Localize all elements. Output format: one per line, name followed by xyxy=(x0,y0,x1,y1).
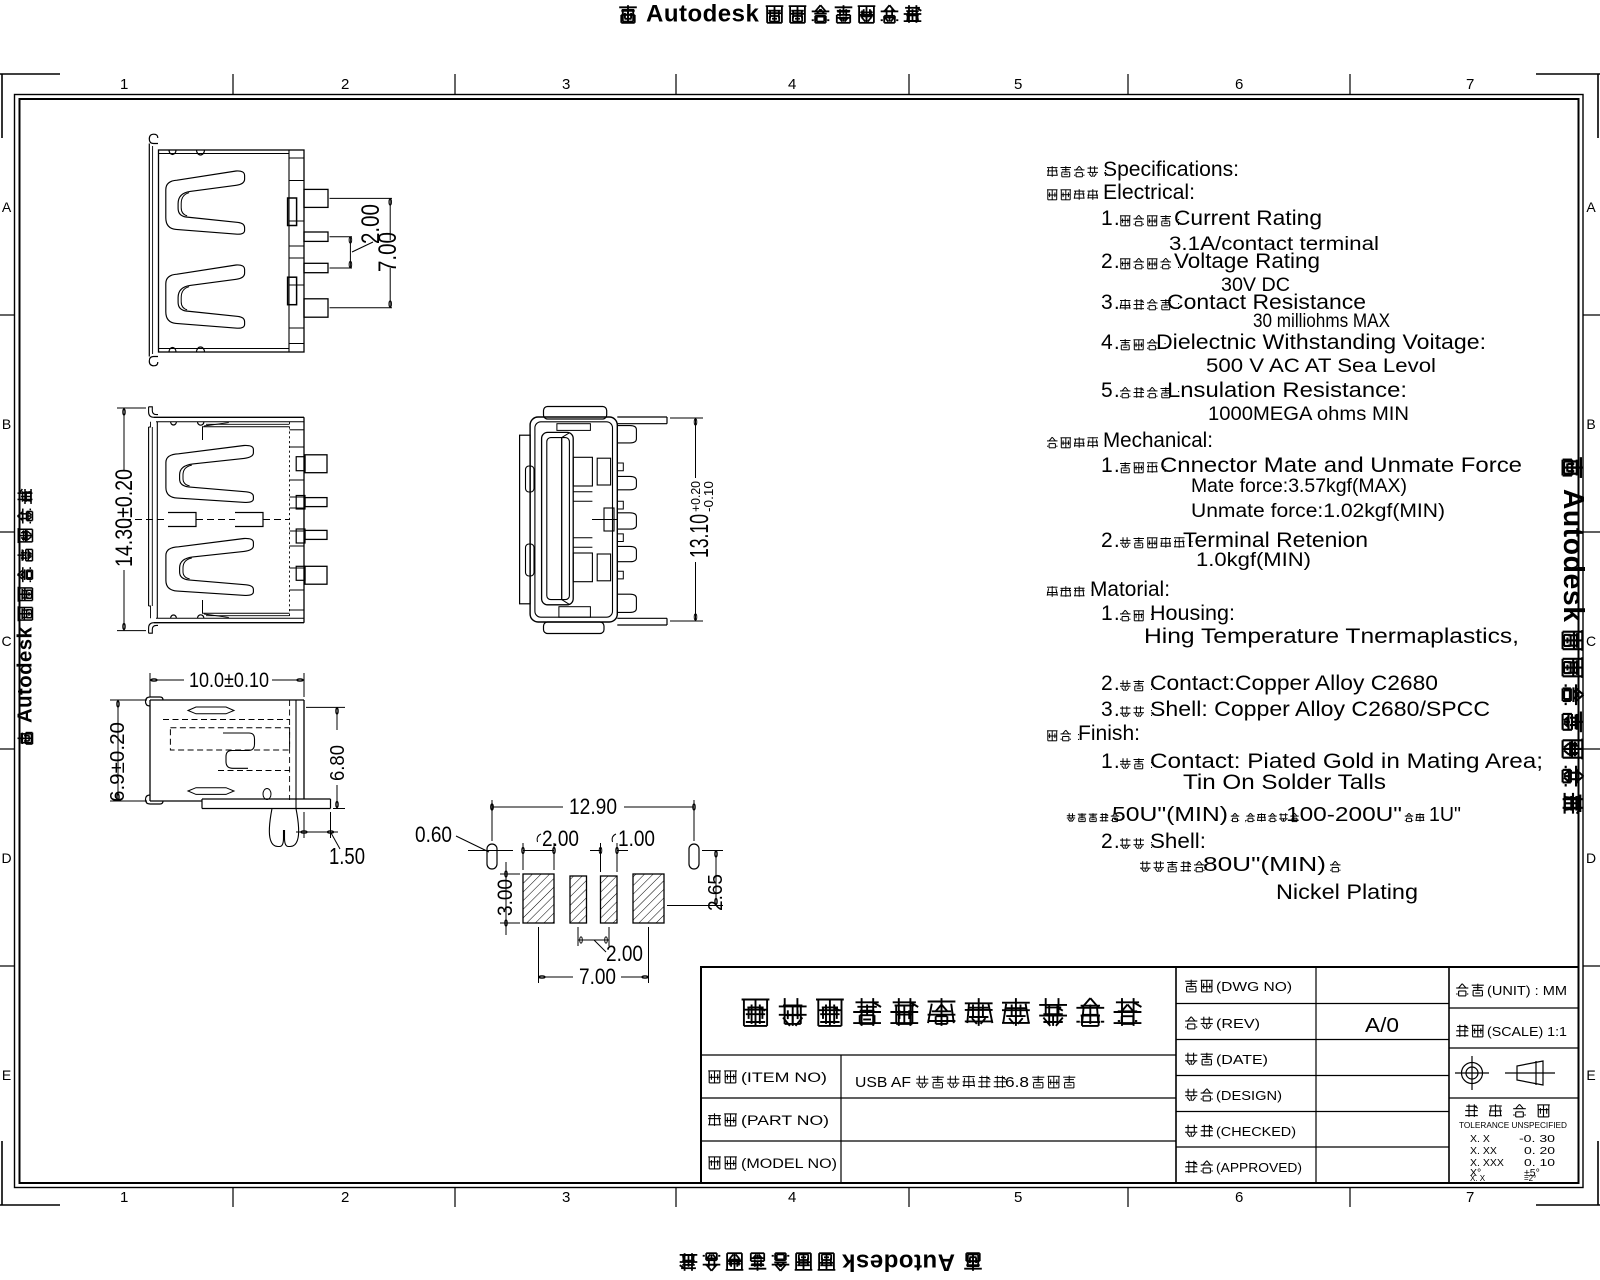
title block item label divider xyxy=(840,1055,842,1183)
v2 center line dashed xyxy=(124,519,168,521)
svg-text:7.00: 7.00 xyxy=(374,232,402,272)
v4 shell seam top xyxy=(188,707,234,714)
svg-text:10.0±0.10: 10.0±0.10 xyxy=(189,669,269,692)
svg-text:2.00: 2.00 xyxy=(606,941,643,966)
column tick marks top xyxy=(232,74,234,95)
svg-text:(CHECKED): (CHECKED) xyxy=(1216,1124,1296,1139)
v2 top dimple bumps xyxy=(171,422,177,425)
v4 shell seam bottom xyxy=(188,788,234,795)
svg-text:-0. 30: -0. 30 xyxy=(1519,1133,1555,1145)
v5 extension lines 2.00 pitch xyxy=(577,927,579,946)
svg-text:E: E xyxy=(1586,1067,1595,1083)
v2 hidden wall dashed line xyxy=(289,422,291,618)
v4 dimension 10.0+-0.10 xyxy=(150,679,184,681)
scale label xyxy=(1456,1025,1468,1037)
svg-text:Finish:: Finish: xyxy=(1078,722,1140,745)
v2 bottom dimple bumps xyxy=(171,615,177,618)
v3 dimension 13.10 +0.20 -0.10 xyxy=(695,418,697,478)
corner centering mark top-right xyxy=(1536,73,1600,75)
svg-text:Matorial:: Matorial: xyxy=(1090,578,1170,601)
svg-text:(DESIGN): (DESIGN) xyxy=(1216,1088,1282,1103)
v1 bottom inner edge line xyxy=(159,348,290,350)
svg-text:A: A xyxy=(1586,199,1596,215)
v1 extension line pin4 xyxy=(330,307,393,309)
v3 top right flange xyxy=(617,416,667,418)
corner centering mark top-left xyxy=(0,73,60,75)
svg-text:D: D xyxy=(1586,850,1596,866)
svg-text:USB AF: USB AF xyxy=(855,1074,911,1091)
v3 shell outer outline xyxy=(530,417,617,622)
v5 extension lines 12.90 xyxy=(491,800,493,841)
title block right section row lines xyxy=(1176,1003,1449,1005)
design label xyxy=(1185,1089,1197,1101)
svg-text:4.: 4. xyxy=(1101,331,1121,354)
v2 pin 1 xyxy=(305,455,327,473)
svg-text:4: 4 xyxy=(788,76,796,93)
svg-text:3: 3 xyxy=(562,76,570,93)
v2 dimension 14.30+-0.20 xyxy=(123,408,125,471)
svg-text:=2°: =2° xyxy=(1524,1174,1536,1183)
v5 dimension 1.00 pad width xyxy=(600,843,602,872)
svg-text:1: 1 xyxy=(120,1189,128,1206)
v2 center housing step xyxy=(168,513,196,527)
svg-text:C: C xyxy=(1,633,11,649)
corner centering mark bottom-left xyxy=(0,1204,60,1206)
Autodesk educational watermark bottom (rotated 180) xyxy=(680,1249,982,1276)
svg-text:1.00: 1.00 xyxy=(618,826,655,851)
column tick marks bottom xyxy=(232,1188,234,1208)
v5 reference lines 2.65 xyxy=(702,850,723,852)
svg-text:100-200U": 100-200U" xyxy=(1286,804,1402,826)
tolerance table xyxy=(1465,1104,1478,1117)
svg-text:X. X: X. X xyxy=(1470,1133,1490,1145)
svg-text:1: 1 xyxy=(120,76,128,93)
svg-text:Hing Temperature Tnermapla: Hing Temperature Tnermaplastics, xyxy=(1144,625,1519,648)
v4 rear wall line xyxy=(295,700,297,809)
v2 rolled edge bottom xyxy=(203,600,290,613)
svg-text:(MODEL NO): (MODEL NO) xyxy=(741,1156,837,1171)
v1 pin 3 xyxy=(304,263,328,272)
svg-text:A: A xyxy=(2,199,12,215)
svg-text:Housing:: Housing: xyxy=(1150,602,1235,625)
svg-text:1.: 1. xyxy=(1101,750,1121,773)
v1 top dimple bumps xyxy=(169,150,176,155)
row tick marks right xyxy=(1583,314,1600,316)
svg-text:2: 2 xyxy=(341,1189,349,1206)
v4 flange hooks xyxy=(146,697,164,706)
svg-text:6.80: 6.80 xyxy=(327,745,349,781)
v2 rolled edge top xyxy=(203,427,290,440)
third angle projection symbol cone xyxy=(1517,1061,1543,1085)
v1 extension line pin2 xyxy=(330,236,353,238)
v2 pin 3 xyxy=(305,530,327,539)
v4 contact S-curve xyxy=(223,733,255,768)
svg-text:(REV): (REV) xyxy=(1216,1016,1260,1031)
v2 shell bottom edge xyxy=(154,622,304,624)
v5 dimension 2.00 pitch xyxy=(578,939,609,941)
svg-text:(APPROVED): (APPROVED) xyxy=(1216,1160,1302,1175)
spec heading Mechanical xyxy=(1047,437,1058,448)
svg-text:B: B xyxy=(1586,416,1595,432)
v5 slot left xyxy=(487,844,497,869)
v3 right edge spring bumps xyxy=(617,426,636,443)
svg-text:E: E xyxy=(2,1067,11,1083)
v1 dimension 7.00 span xyxy=(389,198,391,240)
v3 upper contact stack xyxy=(573,457,592,486)
svg-text:50U"(MIN): 50U"(MIN) xyxy=(1112,804,1228,826)
svg-text:6: 6 xyxy=(1235,76,1243,93)
v1 contact clamp lower xyxy=(166,265,245,328)
svg-text:Autodesk: Autodesk xyxy=(842,1249,956,1276)
v4 dimension 1.50 xyxy=(296,831,338,833)
svg-text:Autodesk: Autodesk xyxy=(646,1,760,28)
svg-text:C: C xyxy=(1586,633,1596,649)
svg-text:1000MEGA ohms MIN: 1000MEGA ohms MIN xyxy=(1208,404,1409,425)
svg-text:Autodesk: Autodesk xyxy=(1557,489,1589,623)
v5 extension lines 3.00 xyxy=(500,873,520,875)
v5 dimension 2.65 xyxy=(715,851,717,906)
v4 extension lines 6.80 xyxy=(306,706,345,708)
svg-text:X. XX: X. XX xyxy=(1470,1145,1497,1157)
v2 pin 2 xyxy=(305,498,327,507)
svg-text:TOLERANCE UNSPECIFIED: TOLERANCE UNSPECIFIED xyxy=(1459,1120,1567,1130)
v1 shell inner wall line xyxy=(288,150,290,352)
svg-text:Mate force:3.57kgf(MAX): Mate force:3.57kgf(MAX) xyxy=(1191,476,1407,497)
corner centering mark bottom-right xyxy=(1536,1204,1600,1206)
svg-text:7: 7 xyxy=(1466,76,1474,93)
company name 东莞泰科连接器有限公司 xyxy=(742,1000,770,1026)
svg-text:1U": 1U" xyxy=(1429,804,1461,826)
svg-text:5: 5 xyxy=(1014,1189,1022,1206)
v2 terminal slot lines xyxy=(290,429,305,431)
svg-text:12.90: 12.90 xyxy=(569,794,617,819)
svg-text:Contact: Piated Gold in Ma: Contact: Piated Gold in Mating Area; xyxy=(1150,750,1543,773)
svg-text:6: 6 xyxy=(1235,1189,1243,1206)
v5 pad 1 hatched xyxy=(523,874,554,923)
approved label xyxy=(1185,1161,1197,1173)
v1 shell body outline xyxy=(159,150,305,352)
v1 contact clamp upper xyxy=(166,171,245,234)
v3 right edge notches xyxy=(617,463,623,471)
svg-text:6.8: 6.8 xyxy=(1005,1074,1029,1091)
svg-text:(DWG NO): (DWG NO) xyxy=(1216,979,1292,994)
v2 contact clamp lower xyxy=(166,538,254,595)
svg-text:Dielectnic Withstanding Voit: Dielectnic Withstanding Voitage: xyxy=(1156,331,1486,354)
title block far right row lines xyxy=(1449,1007,1579,1009)
svg-text:3.: 3. xyxy=(1101,698,1121,721)
svg-text:Cnnector Mate and Unmate F: Cnnector Mate and Unmate Force xyxy=(1160,454,1522,477)
v1 contact window lower xyxy=(288,277,297,305)
svg-text:2.: 2. xyxy=(1101,672,1121,695)
v3 bottom locating tab xyxy=(544,622,605,634)
v3 flange tabs xyxy=(526,466,535,492)
svg-text:1.: 1. xyxy=(1101,207,1121,230)
spec heading Specifications xyxy=(1047,166,1058,177)
checked label xyxy=(1185,1125,1197,1137)
svg-text:,: , xyxy=(1244,813,1247,823)
row tick marks left xyxy=(0,314,15,316)
v5 extension lines 7.00 pitch xyxy=(538,927,540,983)
v1 extension line pin3 xyxy=(330,267,353,269)
spec plating detail line xyxy=(1067,813,1075,821)
v3 tongue face line xyxy=(561,438,563,600)
v2 pin collars xyxy=(296,457,305,471)
v3 bottom inner step xyxy=(559,607,591,618)
svg-text:1.50: 1.50 xyxy=(329,843,365,869)
v3 shell inner line xyxy=(535,422,613,617)
title block left section row lines xyxy=(701,1054,1176,1056)
spec heading Electrical xyxy=(1047,190,1058,200)
svg-text:-0.10: -0.10 xyxy=(701,481,716,512)
svg-text:2.65: 2.65 xyxy=(705,874,727,911)
svg-text:Autodesk: Autodesk xyxy=(14,626,36,723)
v1 extension line pin1 xyxy=(330,197,393,199)
v1 terminal slot lines xyxy=(289,157,304,159)
svg-text:7.00: 7.00 xyxy=(579,964,616,989)
v2 shell left edge xyxy=(156,422,158,618)
v5 pad 2 hatched xyxy=(570,876,587,923)
svg-text:(PART NO): (PART NO) xyxy=(741,1113,829,1128)
unit label xyxy=(1456,984,1468,996)
svg-text:3.: 3. xyxy=(1101,291,1121,314)
Autodesk educational watermark left (rotated) xyxy=(14,489,36,746)
model-no label xyxy=(708,1157,721,1169)
svg-text:A/0: A/0 xyxy=(1365,1015,1399,1037)
svg-text:80U"(MIN): 80U"(MIN) xyxy=(1203,854,1326,876)
title block vertical dividers xyxy=(1175,967,1177,1183)
v3 top locating tab xyxy=(544,407,607,420)
date label xyxy=(1185,1053,1197,1065)
v1 contact window upper xyxy=(288,198,297,226)
v3 extension lines 13.10 xyxy=(670,417,703,419)
svg-text:(DATE): (DATE) xyxy=(1216,1052,1268,1067)
v2 flange hook top-left xyxy=(149,407,158,415)
svg-text:X. X: X. X xyxy=(1470,1174,1486,1183)
v5 dimension 3.00 pad height xyxy=(505,862,507,935)
v3 lower contact stack xyxy=(573,553,592,582)
v2 pin 4 xyxy=(305,566,327,584)
svg-text:B: B xyxy=(2,416,11,432)
svg-text:Contact:Copper Alloy C2680: Contact:Copper Alloy C2680 xyxy=(1150,672,1438,695)
v5 pad 4 hatched xyxy=(633,874,664,923)
v3 top inner step xyxy=(557,424,591,431)
svg-text:0. 20: 0. 20 xyxy=(1524,1145,1555,1157)
v5 dimension 7.00 pitch xyxy=(539,976,574,978)
svg-text:14.30±0.20: 14.30±0.20 xyxy=(111,469,138,567)
v5 dimension 12.90 xyxy=(492,806,563,808)
svg-text:30 milliohms MAX: 30 milliohms MAX xyxy=(1253,311,1390,332)
v2 shell top edge xyxy=(154,416,304,418)
v2 flange hook bottom-left xyxy=(149,625,158,633)
svg-text:Terminal Retenion: Terminal Retenion xyxy=(1183,529,1368,552)
item-no label xyxy=(708,1071,721,1083)
svg-text:Shell:: Shell: xyxy=(1150,830,1206,853)
v4 dimension 6.80 xyxy=(336,707,338,730)
svg-text:(SCALE) 1:1: (SCALE) 1:1 xyxy=(1487,1024,1567,1039)
svg-text:5.: 5. xyxy=(1101,379,1121,402)
svg-text:Tin On Solder Talls: Tin On Solder Talls xyxy=(1183,771,1386,794)
svg-text:D: D xyxy=(1,850,11,866)
svg-text:Unmate force:1.02kgf(MIN): Unmate force:1.02kgf(MIN) xyxy=(1191,501,1445,522)
v1 top inner edge line xyxy=(159,153,290,155)
svg-text:(UNIT) : MM: (UNIT) : MM xyxy=(1487,983,1567,998)
svg-text:1.: 1. xyxy=(1101,454,1121,477)
svg-text:13.10: 13.10 xyxy=(684,514,714,558)
svg-text:Specifications:: Specifications: xyxy=(1103,158,1239,181)
v3 left flange strip xyxy=(520,435,531,604)
svg-text:7: 7 xyxy=(1466,1189,1474,1206)
v1 pin 1 xyxy=(304,189,328,207)
part-no label xyxy=(708,1113,721,1126)
v5 slot right xyxy=(689,844,699,869)
v4 extension lines 10.0 xyxy=(149,673,151,697)
v1 dimension 2.00 pitch xyxy=(349,237,351,268)
v3 tongue ring inner xyxy=(547,438,570,600)
svg-text:2: 2 xyxy=(341,76,349,93)
svg-text:4: 4 xyxy=(788,1189,796,1206)
svg-text:1.0kgf(MIN): 1.0kgf(MIN) xyxy=(1196,550,1311,571)
third angle projection symbol circle xyxy=(1455,1056,1489,1090)
v4 hidden lines dashed xyxy=(163,719,290,721)
v2 extension lines for 14.30 xyxy=(117,407,146,409)
rev label xyxy=(1185,1017,1197,1029)
v1 bottom dimple bumps xyxy=(169,348,176,353)
svg-text:3: 3 xyxy=(562,1189,570,1206)
v3 shell latch detail xyxy=(604,508,614,531)
svg-text:1.: 1. xyxy=(1101,602,1121,625)
v3 tongue ring outer xyxy=(542,432,574,604)
v4 solder feet fork xyxy=(269,809,283,847)
svg-text:Lnsulation Resistance:: Lnsulation Resistance: xyxy=(1167,379,1407,402)
svg-text:Mechanical:: Mechanical: xyxy=(1103,429,1213,452)
spec heading Material xyxy=(1047,586,1058,597)
v4 extension lines 6.9 xyxy=(110,699,147,701)
v4 crimp circle xyxy=(263,789,271,800)
v2 shell right edge xyxy=(303,417,305,622)
v3 bottom right flange xyxy=(617,617,667,619)
svg-text:(ITEM NO): (ITEM NO) xyxy=(741,1070,827,1085)
svg-text:Electrical:: Electrical: xyxy=(1103,181,1195,204)
svg-text:500 V AC AT Sea Levol: 500 V AC AT Sea Levol xyxy=(1206,356,1436,377)
svg-text:2.: 2. xyxy=(1101,830,1121,853)
svg-text:Shell: Copper Alloy C2680/S: Shell: Copper Alloy C2680/SPCC xyxy=(1150,698,1490,721)
title block outline xyxy=(701,967,1579,1183)
svg-text:6.9±0.20: 6.9±0.20 xyxy=(107,722,129,802)
v1 pin 4 xyxy=(304,299,328,317)
v4 hidden tongue dashed rect xyxy=(170,728,289,750)
v4 bottom plate xyxy=(202,798,304,800)
svg-text:Voltage Rating: Voltage Rating xyxy=(1174,250,1320,273)
v4 body outline xyxy=(150,699,304,701)
svg-text:3.00: 3.00 xyxy=(494,879,517,916)
v5 pad 3 hatched xyxy=(601,876,618,923)
v4 extension lines 1.50 xyxy=(303,812,305,838)
v5 dimension 2.00 pad width xyxy=(522,843,524,870)
svg-text:Current Rating: Current Rating xyxy=(1174,207,1322,230)
svg-text:5: 5 xyxy=(1014,76,1022,93)
svg-text:Nickel Plating: Nickel Plating xyxy=(1276,881,1418,904)
svg-text:2.: 2. xyxy=(1101,250,1121,273)
v2 flange strip left xyxy=(148,427,150,606)
v4 dimension 6.9+-0.20 xyxy=(117,700,119,801)
v1 pin 2 xyxy=(304,232,328,241)
svg-text:0.60: 0.60 xyxy=(415,822,452,847)
svg-text:2.: 2. xyxy=(1101,529,1121,552)
svg-text:2.00: 2.00 xyxy=(542,826,579,851)
v2 contact clamp upper xyxy=(166,445,254,502)
v1 mounting flange strip with curled ends xyxy=(149,134,158,143)
Autodesk educational watermark top xyxy=(619,1,921,28)
spec heading Finish xyxy=(1047,731,1058,741)
dwg-no label xyxy=(1185,980,1197,992)
Autodesk educational watermark right (rotated) xyxy=(1557,457,1589,813)
